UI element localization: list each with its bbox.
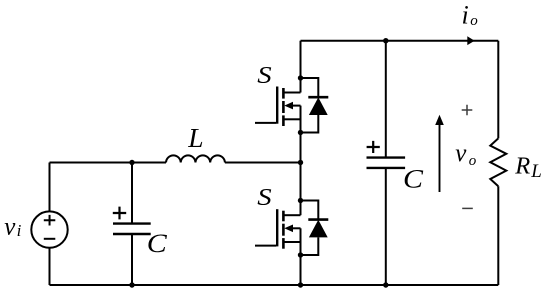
- svg-text:C: C: [147, 230, 168, 259]
- svg-text:i: i: [17, 221, 22, 240]
- svg-text:L: L: [530, 161, 542, 182]
- svg-text:S: S: [257, 61, 271, 88]
- svg-text:R: R: [514, 153, 530, 180]
- svg-text:L: L: [187, 122, 203, 153]
- svg-text:o: o: [470, 13, 478, 29]
- svg-text:S: S: [257, 183, 271, 210]
- svg-text:C: C: [403, 165, 424, 194]
- svg-text:o: o: [469, 153, 477, 169]
- svg-text:v: v: [455, 140, 467, 167]
- svg-text:v: v: [4, 214, 16, 241]
- svg-text:i: i: [462, 0, 469, 29]
